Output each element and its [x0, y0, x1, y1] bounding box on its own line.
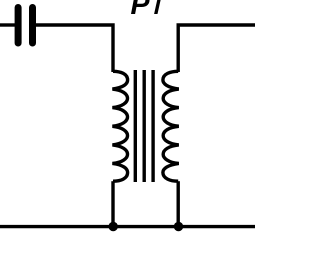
svg-text:P: P: [131, 0, 151, 21]
junction: secondary to bottom rail: [174, 222, 183, 231]
transformer P1 core: [135, 70, 153, 182]
capacitor: [18, 8, 32, 44]
wire: secondary bottom lead: [176, 181, 179, 226]
wire: primary bottom lead: [111, 181, 114, 226]
transformer P1 secondary winding: [163, 71, 179, 181]
transformer P1 primary winding: [112, 71, 127, 181]
wire: left input to capacitor: [0, 23, 15, 26]
wire: bottom rail: [0, 225, 255, 228]
wire: secondary top to right edge: [178, 25, 255, 72]
wire: capacitor to transformer primary: [36, 25, 113, 72]
label P1: [131, 0, 161, 21]
junction: primary to bottom rail: [109, 222, 118, 231]
